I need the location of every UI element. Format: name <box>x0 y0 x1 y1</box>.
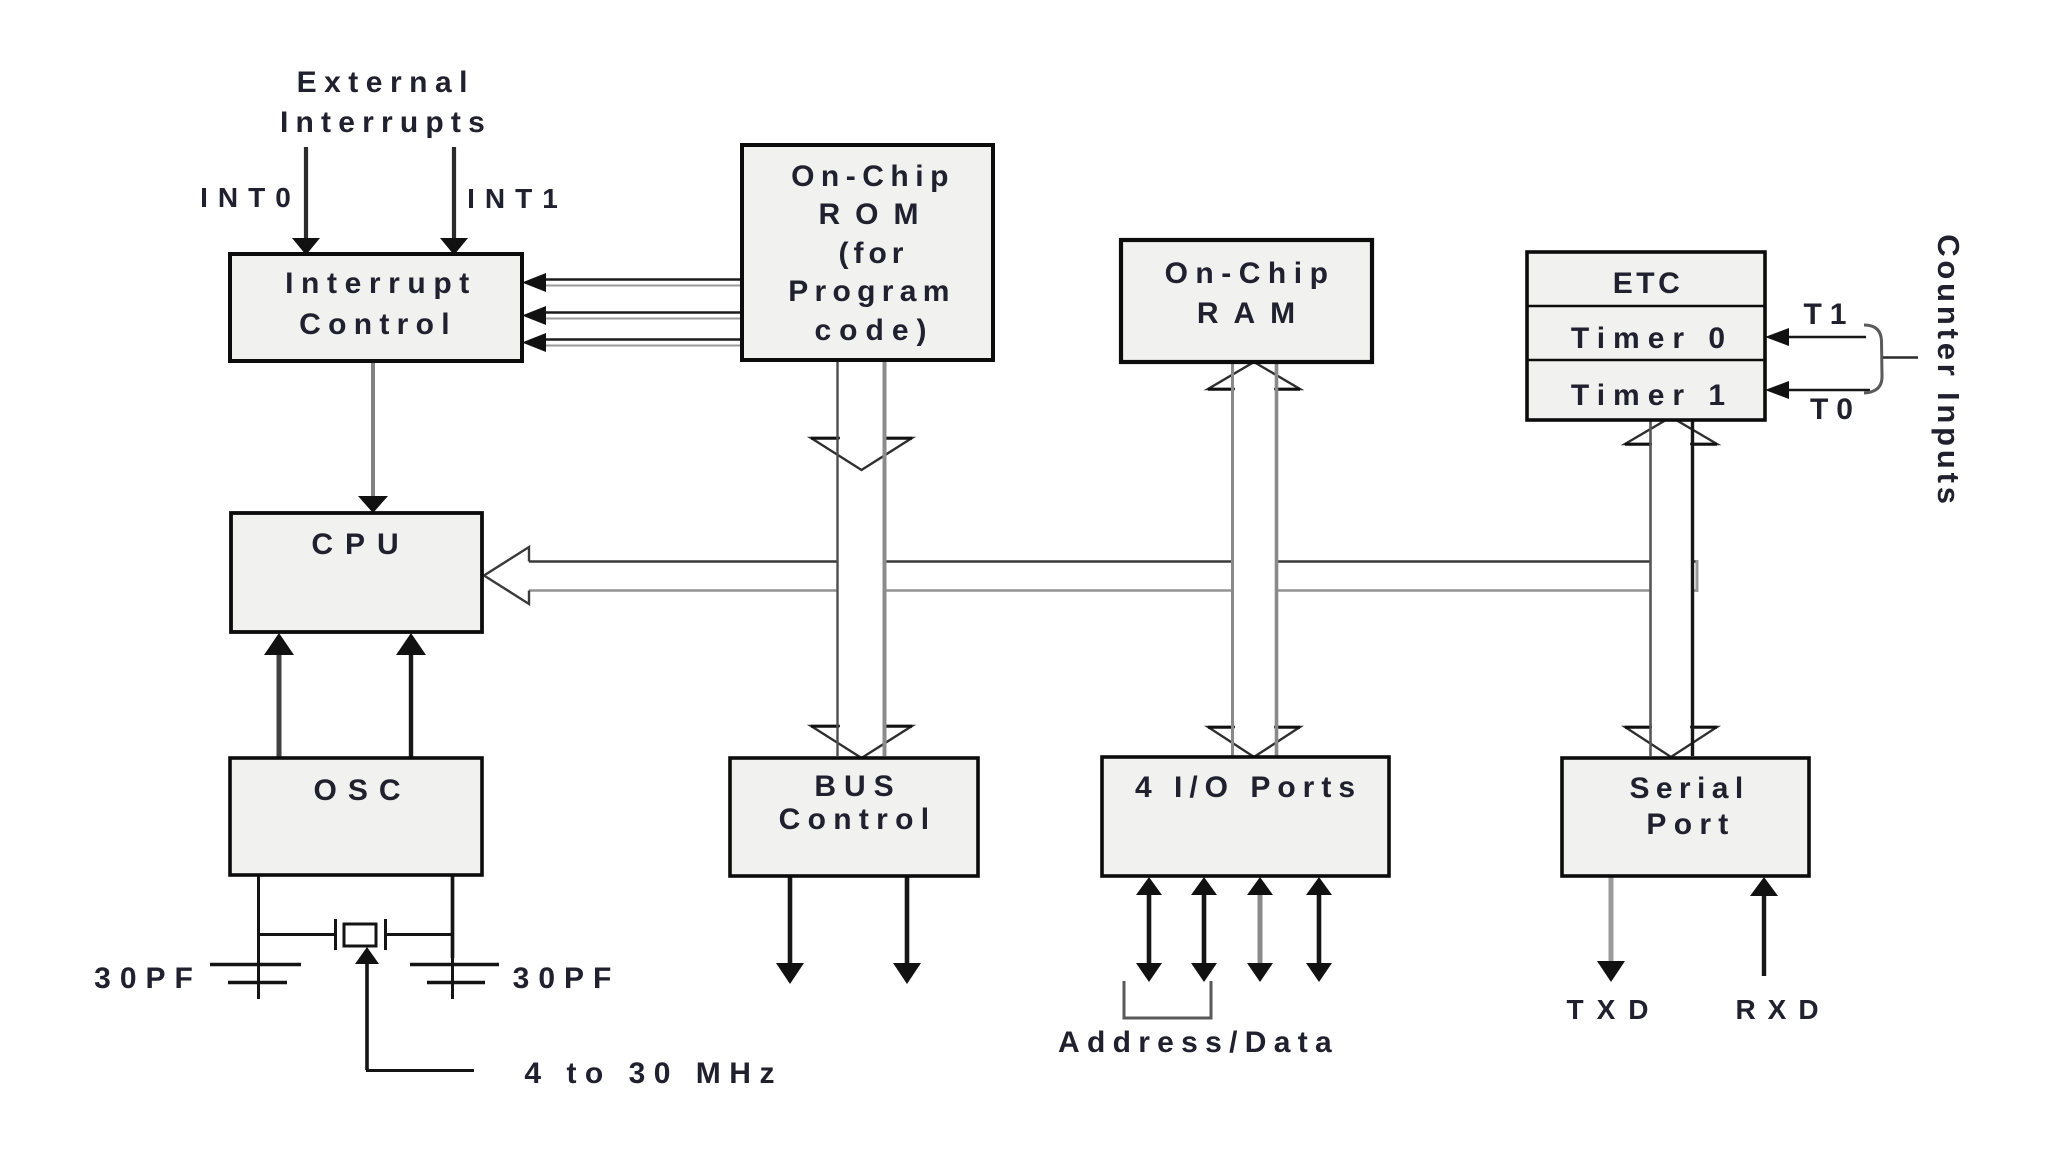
svg-text:Timer 1: Timer 1 <box>1571 379 1733 412</box>
svg-text:Program: Program <box>788 275 955 308</box>
svg-text:RAM: RAM <box>1197 297 1310 330</box>
svg-text:30PF: 30PF <box>94 962 202 995</box>
svg-text:INT1: INT1 <box>467 183 568 214</box>
svg-text:Interrupts: Interrupts <box>280 106 492 139</box>
svg-text:OSC: OSC <box>313 774 411 807</box>
svg-text:(for: (for <box>839 237 909 270</box>
svg-text:T1: T1 <box>1803 298 1854 331</box>
svg-text:BUS: BUS <box>814 770 901 803</box>
svg-text:ROM: ROM <box>819 198 934 231</box>
svg-text:Port: Port <box>1646 808 1735 841</box>
svg-text:Serial: Serial <box>1629 772 1749 805</box>
svg-text:Counter Inputs: Counter Inputs <box>1931 234 1966 508</box>
svg-text:RXD: RXD <box>1735 994 1830 1025</box>
svg-text:ETC: ETC <box>1613 267 1684 300</box>
svg-text:Control: Control <box>779 803 937 836</box>
svg-text:INT0: INT0 <box>200 182 301 213</box>
svg-text:4 I/O Ports: 4 I/O Ports <box>1135 771 1362 804</box>
svg-text:TXD: TXD <box>1567 994 1662 1025</box>
svg-text:CPU: CPU <box>311 528 410 561</box>
svg-text:Interrupt: Interrupt <box>285 267 477 300</box>
svg-text:4 to 30 MHz: 4 to 30 MHz <box>524 1057 783 1090</box>
svg-text:On-Chip: On-Chip <box>1165 257 1336 290</box>
svg-text:Timer 0: Timer 0 <box>1571 322 1733 355</box>
svg-text:External: External <box>297 66 475 99</box>
svg-text:30PF: 30PF <box>513 962 621 995</box>
svg-text:Control: Control <box>299 308 457 341</box>
svg-text:T0: T0 <box>1810 393 1861 426</box>
svg-text:On-Chip: On-Chip <box>791 160 955 193</box>
svg-text:Address/Data: Address/Data <box>1058 1026 1339 1059</box>
svg-text:code): code) <box>814 314 934 347</box>
